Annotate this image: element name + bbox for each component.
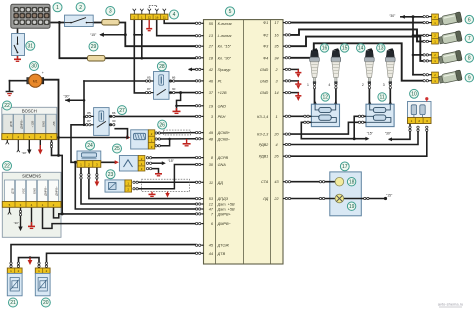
svg-text:GND: GND [41,121,45,127]
svg-text:27: 27 [119,108,125,114]
svg-text:21: 21 [10,300,16,306]
svg-text:20: 20 [43,300,49,306]
svg-text:ДМРВ+: ДМРВ+ [20,119,24,129]
svg-text:+12В: +12В [218,91,227,95]
svg-text:12: 12 [148,15,152,19]
svg-text:30: 30 [112,119,116,123]
svg-text:20: 20 [273,133,279,137]
svg-text:7: 7 [468,36,471,42]
svg-text:Прикур: Прикур [218,68,231,72]
svg-text:Кл. “15”: Кл. “15” [218,45,232,49]
svg-text:1: 1 [275,115,277,119]
svg-text:27: 27 [208,45,214,49]
svg-text:Дат. +5В: Дат. +5В [217,203,235,207]
svg-text:9: 9 [468,75,471,81]
svg-text:+5В: +5В [52,121,56,126]
svg-text:22: 22 [273,197,279,201]
svg-text:“30”: “30” [21,151,26,155]
svg-text:Кл. “30”: Кл. “30” [218,56,232,60]
svg-text:Дат. +5В: Дат. +5В [217,208,235,212]
svg-text:29: 29 [91,44,97,50]
svg-text:Ф4: Ф4 [263,56,268,60]
svg-text:Ф1: Ф1 [263,21,268,25]
svg-text:22: 22 [4,103,10,109]
svg-text:4: 4 [328,83,330,87]
svg-text:КЗ-1,4: КЗ-1,4 [257,115,268,119]
svg-text:8: 8 [468,56,471,62]
svg-text:31: 31 [28,44,34,50]
svg-text:GND: GND [260,79,269,83]
svg-text:1: 1 [307,83,309,87]
svg-text:4: 4 [173,12,176,18]
svg-text:ДПДЗ: ДПДЗ [217,197,229,201]
svg-text:“30”: “30” [389,14,395,18]
svg-text:10: 10 [411,92,417,98]
svg-text:GND: GND [33,188,37,194]
svg-text:87: 87 [147,87,151,91]
svg-text:РБН: РБН [218,115,226,119]
svg-text:КЗ-2,3: КЗ-2,3 [257,133,269,137]
svg-text:11: 11 [163,15,166,19]
svg-text:14: 14 [358,46,364,52]
svg-text:11: 11 [379,95,384,101]
svg-text:ДМРВ−: ДМРВ− [44,186,48,196]
svg-text:24: 24 [87,143,93,149]
svg-text:РДВ2: РДВ2 [259,143,269,147]
svg-text:2: 2 [79,5,82,11]
svg-text:Ф3: Ф3 [263,45,269,49]
svg-text:2: 2 [362,83,364,87]
svg-text:ДМРВ+: ДМРВ+ [217,212,232,216]
svg-text:85: 85 [87,111,91,115]
svg-text:6: 6 [468,17,471,23]
svg-text:19: 19 [349,204,355,210]
svg-text:“30”: “30” [385,132,391,136]
svg-text:30: 30 [31,64,37,70]
svg-text:M1: M1 [33,79,38,83]
svg-text:44: 44 [209,252,213,256]
svg-text:L-линия: L-линия [218,34,232,38]
svg-text:“15”: “15” [168,159,174,163]
svg-text:ДТВ: ДТВ [11,188,15,194]
svg-text:ДТОЖ: ДТОЖ [217,244,230,248]
svg-text:26: 26 [159,122,165,128]
svg-text:1: 1 [56,5,59,11]
svg-text:15: 15 [342,46,348,52]
svg-text:Pt.: Pt. [218,79,223,83]
svg-text:ДТВ: ДТВ [217,252,226,256]
svg-text:РДВ1: РДВ1 [259,155,269,159]
svg-text:12: 12 [323,95,329,101]
svg-text:Ф2: Ф2 [263,33,269,37]
svg-text:BOSCH: BOSCH [22,109,37,114]
svg-text:14: 14 [274,91,278,95]
svg-text:“30”: “30” [14,221,19,225]
svg-text:УОС: УОС [22,188,26,194]
svg-text:SIEMENS: SIEMENS [22,174,41,179]
svg-text:GND: GND [218,104,227,108]
svg-text:ДТВ: ДТВ [9,121,13,127]
svg-text:16: 16 [155,15,159,19]
svg-text:87: 87 [87,119,91,123]
svg-text:3: 3 [109,9,112,15]
svg-text:ЛД: ЛД [262,197,269,201]
svg-text:GND: GND [260,68,269,72]
svg-text:GND: GND [260,91,269,95]
svg-text:ДМРВ+: ДМРВ+ [55,186,59,196]
svg-text:СТА: СТА [261,180,269,184]
svg-text:26: 26 [273,155,279,159]
svg-text:ДСКВ−: ДСКВ− [217,137,231,141]
svg-text:86: 86 [172,75,176,79]
svg-text:“15”: “15” [90,33,96,37]
svg-text:“30”: “30” [63,95,69,99]
svg-text:25: 25 [114,146,120,152]
svg-text:4: 4 [275,143,277,147]
svg-text:17: 17 [342,164,348,170]
svg-text:16: 16 [322,46,328,52]
svg-text:3: 3 [383,83,385,87]
svg-text:+: + [42,71,44,75]
svg-text:“15”: “15” [367,132,373,136]
svg-text:ДД: ДД [217,181,224,185]
svg-text:28: 28 [159,64,165,70]
svg-text:23: 23 [108,172,114,178]
svg-text:11: 11 [209,181,213,185]
svg-text:avto-shema.ru: avto-shema.ru [438,302,464,307]
svg-text:86: 86 [112,111,116,115]
svg-text:ДСРВ: ДСРВ [217,156,229,160]
svg-text:13: 13 [378,46,384,52]
svg-text:30: 30 [172,87,176,91]
svg-text:ДМРВ−: ДМРВ− [217,222,232,226]
svg-text:ДСКВ+: ДСКВ+ [217,131,231,135]
svg-text:85: 85 [147,75,151,79]
svg-text:GNA: GNA [218,163,227,167]
svg-text:К-линия: К-линия [218,22,232,26]
svg-text:18: 18 [349,179,355,185]
svg-text:22: 22 [4,164,10,170]
svg-text:“15”: “15” [386,193,392,197]
svg-text:34: 34 [274,56,278,60]
svg-text:+12В: +12В [31,121,35,128]
svg-text:5: 5 [229,9,232,15]
